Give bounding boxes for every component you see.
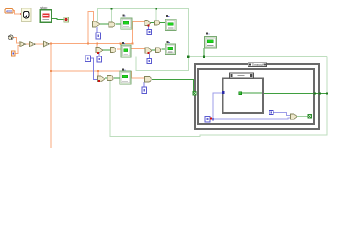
svg-text:400: 400 <box>6 9 12 13</box>
svg-text:Timeout: Timeout <box>252 63 264 67</box>
